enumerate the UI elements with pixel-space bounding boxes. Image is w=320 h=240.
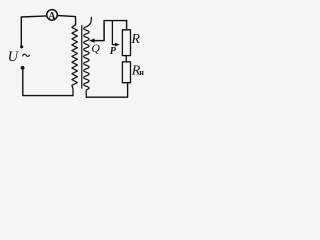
svg-text:Q: Q: [91, 41, 100, 55]
svg-text:P: P: [110, 46, 117, 57]
svg-text:R: R: [130, 32, 140, 47]
svg-text:н: н: [139, 68, 144, 77]
svg-text:A: A: [48, 11, 56, 22]
svg-text:U: U: [8, 49, 20, 65]
